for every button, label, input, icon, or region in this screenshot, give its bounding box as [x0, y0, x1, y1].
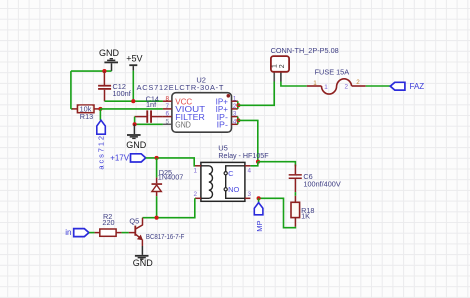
svg-text:1: 1: [272, 64, 279, 68]
relay contact C: [224, 166, 245, 178]
wire: VIOUT row to U2 pin 7: [100, 108, 162, 110]
node junction +5V/VCC: [131, 99, 135, 103]
relay pin 1 stub: [195, 165, 201, 167]
svg-text:C: C: [228, 169, 234, 178]
U2 pin 1 stub: [231, 100, 238, 102]
svg-text:R13: R13: [80, 112, 93, 121]
power flag +5V: [126, 54, 142, 71]
svg-text:FUSE 15A: FUSE 15A: [315, 68, 350, 77]
svg-text:GND: GND: [175, 121, 191, 130]
U2 pin 8 VCC stub: [163, 100, 172, 102]
relay armature: [225, 175, 227, 188]
svg-text:3: 3: [248, 191, 252, 198]
relay contact NO: [224, 185, 245, 198]
svg-text:7: 7: [166, 103, 170, 110]
node junction diode / collector: [155, 216, 159, 220]
svg-text:GND: GND: [126, 140, 147, 150]
wire: C14 left down to GND row: [134, 117, 136, 125]
svg-text:2: 2: [194, 191, 198, 198]
svg-text:4: 4: [248, 167, 252, 174]
U2 pin names right: [216, 97, 229, 129]
wire: bracket joining pins 3-4: [237, 117, 239, 125]
svg-text:acs712: acs712: [96, 134, 105, 170]
U2 pin 2 stub: [231, 108, 238, 110]
svg-text:IP-: IP-: [217, 121, 229, 130]
svg-text:1K: 1K: [301, 211, 310, 220]
node junction relay pin 3 / MP: [257, 196, 261, 200]
svg-text:1N4007: 1N4007: [158, 172, 184, 181]
wire: connector pin2 to fuse: [281, 82, 307, 87]
transistor Q5 BC817-16-7-F: [129, 217, 185, 246]
wire: down to acs712 flag: [99, 109, 101, 120]
net label acs712: [96, 120, 105, 169]
relay pin 3 stub: [245, 197, 251, 199]
svg-text:4: 4: [233, 118, 237, 125]
svg-text:NO: NO: [228, 185, 239, 194]
svg-text:2: 2: [356, 79, 360, 86]
svg-text:GND: GND: [99, 48, 120, 58]
svg-text:Q5: Q5: [129, 217, 139, 226]
svg-text:+5V: +5V: [126, 54, 142, 64]
node junction pins 3-4: [236, 118, 240, 122]
U2 pin 5 GND stub: [163, 123, 172, 125]
relay pin 4 stub: [245, 165, 251, 167]
U2 pin 7 VIOUT stub: [163, 108, 172, 110]
node junction +17V / D25: [155, 156, 159, 160]
node junction C14/GND: [133, 122, 137, 126]
ground GND under Q5: [133, 246, 154, 268]
svg-text:2: 2: [345, 83, 349, 90]
U2 pin names left: [175, 97, 205, 129]
wire: pins 3-4 junction to relay/C6 node: [238, 120, 258, 161]
wire: +5V down to VCC row: [132, 71, 134, 102]
U2 right pin numbers 1 2 3 4: [233, 95, 237, 125]
svg-text:GND: GND: [133, 258, 154, 268]
net label MP: [254, 203, 264, 232]
capacitor C12 100nf: [98, 71, 132, 101]
svg-text:Relay - HF105F: Relay - HF105F: [218, 151, 269, 160]
svg-text:1nf: 1nf: [146, 100, 157, 109]
wire: fuse to FAZ flag: [366, 85, 391, 87]
wire: left vertical down to R13: [70, 71, 72, 109]
svg-text:CONN-TH_2P-P5.08: CONN-TH_2P-P5.08: [271, 46, 339, 55]
wire: diode to collector row: [156, 196, 158, 218]
wire: down to diode: [156, 158, 158, 178]
U2 pin 4 stub: [231, 123, 238, 125]
wire: GND bar row horizontal: [71, 70, 112, 72]
wire: R2 to Q5 base: [122, 232, 129, 234]
wire: C6 to R18: [294, 192, 296, 196]
svg-text:FAZ: FAZ: [410, 82, 425, 91]
net label in: [65, 228, 89, 237]
node junction R13/VIOUT: [98, 107, 102, 111]
wire: pins 1-2 to connector: [238, 82, 274, 106]
svg-text:1: 1: [194, 167, 198, 174]
svg-text:5: 5: [166, 118, 170, 125]
capacitor C14 1nf: [135, 94, 163, 122]
wire: right to C6: [258, 162, 295, 167]
svg-text:100nf/400V: 100nf/400V: [303, 179, 340, 188]
svg-text:BC817-16-7-F: BC817-16-7-F: [146, 232, 185, 241]
svg-text:ACS712ELCTR-30A-T: ACS712ELCTR-30A-T: [137, 83, 225, 92]
svg-text:in: in: [65, 228, 71, 237]
svg-text:2: 2: [233, 103, 237, 110]
resistor R13 10k: [72, 104, 101, 121]
svg-text:3: 3: [233, 111, 237, 118]
svg-text:6: 6: [166, 111, 170, 118]
diode D25 1N4007: [152, 168, 184, 196]
wire: GND row to U2 pin 5: [135, 123, 163, 125]
resistor R2 220: [95, 212, 122, 237]
svg-text:1: 1: [233, 95, 237, 102]
relay coil: [201, 166, 213, 199]
relay U5 Relay - HF105F: [218, 144, 269, 161]
svg-text:2: 2: [279, 64, 286, 68]
svg-text:1: 1: [313, 80, 317, 87]
ground GND under C14: [126, 124, 147, 150]
wire: R18 bottom around to relay pin 3: [259, 198, 296, 227]
svg-text:+17V: +17V: [110, 154, 130, 163]
wire: collector row to relay pin 2: [143, 198, 195, 217]
wire: +17V to relay pin 1: [146, 158, 195, 166]
wire: VCC row to U2 pin 8: [105, 100, 163, 102]
svg-text:8: 8: [166, 95, 170, 102]
relay body: [201, 162, 245, 201]
fuse FUSE 15A: [307, 68, 366, 94]
svg-text:100nf: 100nf: [113, 89, 132, 98]
node junction relay pin4 / C6: [256, 160, 260, 164]
capacitor C6 100nf/400V: [289, 165, 341, 193]
wire: down to MP flag: [258, 198, 260, 203]
U2 left pin numbers 8 7 6 5: [166, 95, 170, 125]
svg-text:1: 1: [324, 84, 328, 91]
relay pin numbers: [194, 167, 252, 198]
node junction at GND/C12: [102, 69, 106, 73]
wire: bracket joining pins 1-2: [237, 101, 239, 109]
net label +17V power flag: [110, 154, 146, 163]
node junction pins 1-2: [236, 103, 240, 107]
svg-text:MP: MP: [255, 221, 264, 232]
U2 pin 3 stub: [231, 116, 238, 118]
ground GND top-left (flipped earth symbol): [99, 48, 120, 71]
connector CONN-TH_2P-P5.08: [271, 46, 339, 81]
resistor R18 1K: [291, 196, 314, 227]
svg-text:220: 220: [102, 218, 114, 227]
wire: in flag to R2: [89, 232, 95, 234]
wire: short into R13: [71, 108, 73, 110]
IC U2 ACS712ELCTR-30A-T current sensor: [137, 76, 232, 133]
net label FAZ: [390, 82, 424, 91]
wire: down-left to relay pin 4: [250, 162, 257, 166]
U2 pin 6 FILTER stub: [163, 116, 172, 118]
relay pin 2 stub: [195, 197, 201, 199]
